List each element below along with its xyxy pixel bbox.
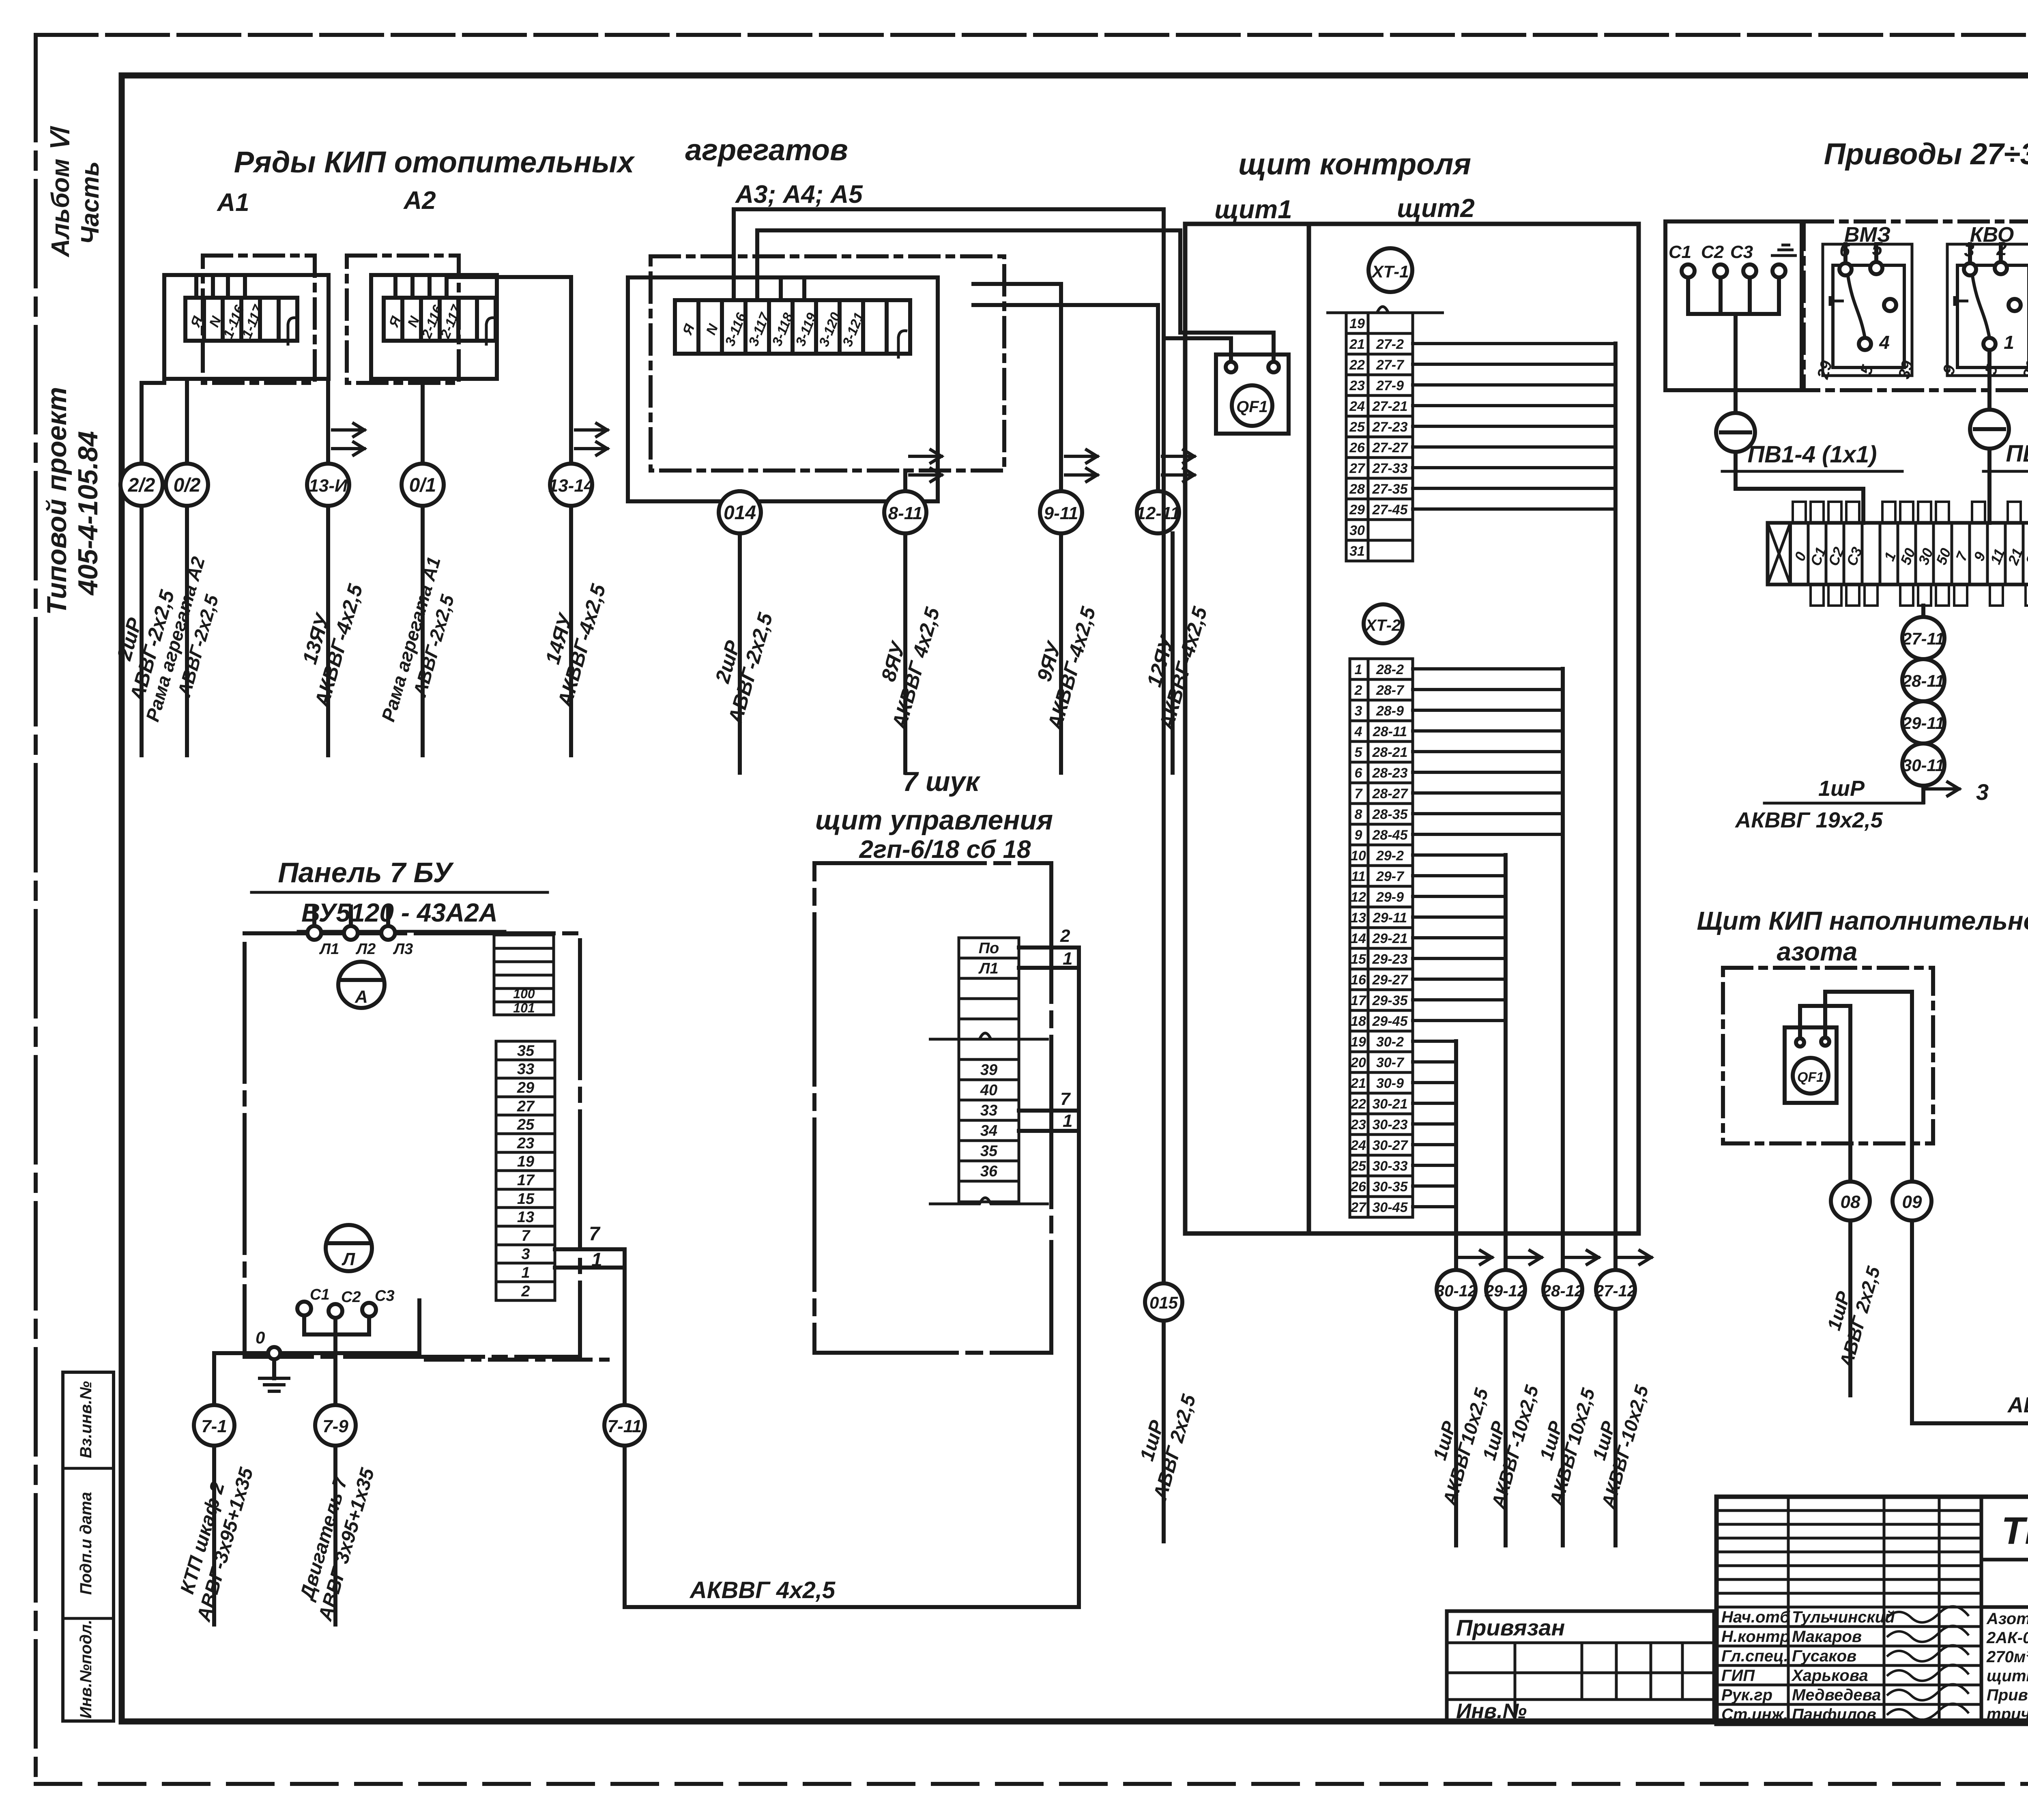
svg-text:27-9: 27-9 [1376, 378, 1404, 393]
cable marker 27-12 [1594, 1270, 1636, 1309]
svg-text:Медведева: Медведева [1792, 1686, 1881, 1704]
svg-text:1: 1 [2004, 332, 2014, 353]
svg-text:28-12: 28-12 [1542, 1282, 1583, 1300]
svg-text:21: 21 [1349, 337, 1365, 352]
wire QF1 to 09 [1825, 992, 1912, 1182]
svg-text:08: 08 [1841, 1192, 1860, 1212]
fuse ПВ1-4 symbol [1716, 413, 1755, 452]
svg-text:13-14: 13-14 [548, 476, 594, 496]
cables below 30-12..27-12 [1454, 1309, 1458, 1545]
svg-text:Привязан: Привязан [1456, 1615, 1565, 1640]
svg-text:Рук.гр: Рук.гр [1721, 1686, 1772, 1704]
cable marker 13-И [307, 464, 349, 506]
cable 14ЯУ АКВВГ-4х2,5 [569, 506, 573, 755]
svg-text:С2: С2 [341, 1289, 361, 1306]
svg-text:А1: А1 [216, 189, 249, 217]
wire: A3 to QF1 right terminal [757, 230, 1274, 367]
svg-text:30-11: 30-11 [1902, 756, 1944, 775]
svg-text:30-35: 30-35 [1373, 1179, 1408, 1195]
svg-text:щит2: щит2 [1397, 193, 1474, 223]
svg-text:3: 3 [1976, 779, 1989, 805]
svg-text:Панфилов: Панфилов [1792, 1706, 1876, 1723]
cable 1шР АВВГ 2х2,5 (015) [1162, 1321, 1166, 1541]
svg-text:13: 13 [1351, 910, 1366, 926]
svg-text:7-1: 7-1 [201, 1416, 227, 1436]
svg-text:Подп.и дата: Подп.и дата [77, 1492, 95, 1595]
svg-text:2: 2 [1354, 683, 1362, 698]
svg-text:28-7: 28-7 [1376, 683, 1405, 698]
svg-text:7: 7 [521, 1227, 531, 1244]
cable marker 015 [1145, 1283, 1182, 1321]
svg-text:014: 014 [724, 502, 756, 524]
cable 1шР АВВГ 2х2,5 (08) [1814, 1220, 1884, 1395]
wire С2 to 7-9 [333, 1334, 337, 1404]
svg-text:21: 21 [1350, 1076, 1366, 1091]
cable marker 8-11 [884, 491, 926, 533]
svg-text:2/2: 2/2 [128, 475, 155, 496]
svg-text:Н.контр: Н.контр [1721, 1628, 1790, 1646]
svg-text:405-4-105.84: 405-4-105.84 [73, 431, 103, 596]
svg-text:27-35: 27-35 [1372, 481, 1408, 497]
svg-text:QF1: QF1 [1797, 1070, 1824, 1085]
bus 29 [1504, 855, 1508, 1270]
svg-text:26: 26 [1349, 440, 1365, 456]
wire QF1 to 08 [1800, 1006, 1850, 1182]
cable marker 29-12 [1484, 1270, 1526, 1309]
wire КВО pin1 to ПВ1-8 [1987, 350, 1991, 410]
svg-text:6: 6 [1839, 239, 1850, 260]
cable Рама агрегата А1 [421, 506, 425, 755]
svg-text:13-И: 13-И [309, 476, 348, 496]
svg-text:15: 15 [517, 1190, 535, 1208]
title block description [1986, 1610, 2028, 1723]
svg-text:29-7: 29-7 [1376, 869, 1405, 884]
svg-text:7-11: 7-11 [608, 1416, 642, 1436]
drives terminal strip [1768, 502, 2028, 606]
wire direction arrows [333, 423, 1194, 481]
svg-text:29: 29 [1349, 502, 1365, 518]
margin note: album [47, 126, 104, 258]
svg-text:Л1: Л1 [319, 941, 339, 958]
svg-text:28-2: 28-2 [1376, 662, 1404, 677]
svg-text:6: 6 [1355, 765, 1363, 781]
svg-text:1: 1 [591, 1249, 602, 1271]
svg-text:18: 18 [1351, 1014, 1366, 1029]
svg-text:Азотно-кислородная станция: Азотно-кислородная станция [1986, 1610, 2028, 1628]
title block doc number [1981, 1497, 2028, 1607]
svg-text:0/1: 0/1 [409, 475, 436, 496]
svg-text:Л1: Л1 [978, 960, 998, 977]
cable marker 7-9 [315, 1405, 356, 1446]
cable marker 08 [1831, 1182, 1870, 1220]
cable marker 28-11 [1902, 659, 1944, 701]
terminals С1 С2 С3 [297, 1286, 395, 1334]
cable marker 7-11 [604, 1405, 645, 1446]
svg-text:30: 30 [1349, 523, 1365, 538]
terminal block A3 [675, 300, 910, 359]
svg-text:Харькова: Харькова [1791, 1667, 1868, 1685]
signal lamps Л1 Л2 Л3 [307, 907, 413, 958]
svg-text:щиты кип;7щук, Панель 7БУ: щиты кип;7щук, Панель 7БУ [1987, 1667, 2028, 1685]
svg-text:4: 4 [1354, 724, 1362, 739]
svg-text:27-7: 27-7 [1376, 357, 1405, 373]
svg-text:22: 22 [1349, 357, 1365, 373]
svg-text:35: 35 [517, 1042, 535, 1059]
svg-text:28-27: 28-27 [1372, 786, 1409, 801]
wires strip to 7-11 riser [555, 1223, 625, 1406]
svg-text:36: 36 [980, 1163, 998, 1180]
terminal table XT-2 [1350, 659, 1413, 1217]
wire: A1 right bus to marker 13-И [326, 379, 330, 464]
svg-text:5: 5 [1872, 238, 1883, 259]
svg-text:Альбом Ⅵ: Альбом Ⅵ [47, 126, 75, 258]
A1 terminal stubs [196, 275, 245, 298]
svg-text:Л: Л [342, 1249, 355, 1269]
svg-text:По: По [979, 940, 999, 957]
label ПВ1-4(1х1) [1722, 441, 1902, 523]
nitrogen KIP box [1723, 968, 1933, 1143]
cable marker 7-1 [194, 1405, 234, 1446]
7шук terminal strip [959, 938, 1019, 1202]
cable marker 014 [719, 491, 761, 533]
wires 33/34 out [1019, 1089, 1079, 1131]
svg-text:19: 19 [1349, 316, 1365, 331]
svg-text:9-11: 9-11 [1044, 503, 1078, 523]
svg-text:0/2: 0/2 [174, 475, 201, 496]
svg-text:29-27: 29-27 [1372, 972, 1409, 988]
svg-text:20: 20 [1350, 1055, 1366, 1070]
svg-text:Нач.отб: Нач.отб [1721, 1608, 1790, 1626]
svg-text:Щит КИП наполнительной: Щит КИП наполнительной [1697, 906, 2028, 935]
terminal strip label XT-1 [1368, 248, 1412, 292]
margin stamp column (Инв №) [63, 1372, 114, 1721]
svg-text:4: 4 [1879, 332, 1890, 353]
svg-text:28-23: 28-23 [1372, 765, 1408, 781]
svg-text:27: 27 [517, 1098, 535, 1115]
svg-text:3: 3 [1964, 239, 1974, 260]
drive terminals box (C1 C2 C3) [1665, 221, 1802, 413]
title block table [1716, 1497, 2028, 1724]
svg-text:28-35: 28-35 [1372, 807, 1408, 822]
svg-text:11: 11 [1351, 869, 1365, 884]
svg-text:Гл.спец.: Гл.спец. [1721, 1647, 1788, 1665]
cable marker 9-11 [1040, 491, 1082, 533]
svg-text:28-21: 28-21 [1372, 745, 1408, 760]
wires XT-2 rows to buses [1413, 669, 1563, 1207]
svg-text:30-27: 30-27 [1373, 1138, 1409, 1153]
svg-text:2АК-0,135 производительностью: 2АК-0,135 производительностью [1986, 1629, 2028, 1647]
wire: A2 to marker 13-14 [447, 277, 571, 464]
svg-text:2гп-6/18 сб 18: 2гп-6/18 сб 18 [859, 836, 1031, 864]
svg-text:ГИП: ГИП [1721, 1667, 1755, 1685]
svg-text:28: 28 [1349, 481, 1365, 497]
margin note: typical project number [41, 387, 103, 615]
svg-text:1: 1 [1355, 662, 1362, 677]
svg-text:14: 14 [1351, 931, 1366, 946]
node 0 / zero bus [214, 1300, 612, 1360]
svg-text:2: 2 [521, 1283, 530, 1300]
wire: strip down to 27-11 chain [1921, 606, 1925, 617]
wire: A2 down to marker 0/1 [421, 379, 425, 464]
label 1шР АКВВГ19х2,5 [1734, 776, 1923, 832]
svg-text:1: 1 [1063, 949, 1072, 969]
wire: A3 to QF1 left terminal / 015 feed [734, 209, 1231, 367]
divider щит1/щит2 [1307, 224, 1311, 1233]
svg-text:Ст.инж.: Ст.инж. [1721, 1706, 1788, 1723]
panel A2 wiring loop [371, 275, 497, 379]
svg-text:27-23: 27-23 [1372, 419, 1408, 435]
wire: A3 right to marker 12-11 [973, 305, 1158, 491]
wire below 30-11 with arrow 3 [1923, 779, 1989, 805]
svg-text:19: 19 [1351, 1034, 1366, 1050]
wire: feed down to marker 015 [1162, 338, 1166, 1284]
wires XT-1 rows to 27 bus [1413, 344, 1616, 509]
panel terminal strip [496, 1041, 555, 1300]
board 7шук box [814, 863, 1051, 1353]
ammeter А [338, 962, 385, 1008]
svg-text:5: 5 [1355, 745, 1363, 760]
terminal block A1 [185, 298, 297, 346]
terminal strip label XT-2 [1364, 604, 1403, 643]
svg-text:30-12: 30-12 [1435, 1282, 1477, 1300]
strip break marks [929, 1033, 1049, 1204]
cable marker 30-11 [1902, 743, 1944, 786]
svg-text:17: 17 [517, 1172, 535, 1189]
cable marker 0/1 [402, 464, 444, 506]
svg-text:АКВВГ 4х2,5: АКВВГ 4х2,5 [689, 1577, 836, 1603]
wire 09 to oxygen box АВВГ 2х2,5 [1912, 1143, 2028, 1423]
svg-text:33: 33 [980, 1102, 997, 1119]
svg-text:щит1: щит1 [1214, 195, 1292, 224]
panel 7БУ box [245, 933, 580, 1357]
wires По/Л1 out [1019, 926, 1079, 969]
cable marker 13-14 [548, 464, 594, 506]
svg-text:27-27: 27-27 [1372, 440, 1409, 456]
control board box [1185, 224, 1639, 1233]
cable marker 2/2 [120, 464, 163, 506]
cable marker 28-12 [1542, 1270, 1583, 1309]
bus 27 [1613, 344, 1618, 1270]
wire: A3 down to marker 8-11 [903, 471, 907, 491]
svg-text:8: 8 [1355, 807, 1362, 822]
svg-text:азота: азота [1777, 937, 1858, 966]
svg-text:7: 7 [1060, 1089, 1071, 1109]
cable marker 0/2 [166, 464, 208, 506]
title: Панель 7БУ [251, 857, 548, 892]
bus 28 [1561, 669, 1565, 1270]
title block signatures text [1721, 1606, 1969, 1723]
svg-text:А3; А4; А5: А3; А4; А5 [735, 180, 863, 208]
svg-text:09: 09 [1902, 1192, 1922, 1212]
svg-text:29: 29 [517, 1079, 534, 1096]
svg-text:22: 22 [1350, 1096, 1366, 1112]
svg-text:29-12: 29-12 [1484, 1282, 1526, 1300]
svg-text:ПВ1-8 (1х1): ПВ1-8 (1х1) [2006, 440, 2028, 467]
svg-text:28-11: 28-11 [1902, 671, 1944, 690]
wire: A3 down to marker 014 [738, 491, 742, 501]
svg-text:25: 25 [1350, 1158, 1366, 1174]
svg-text:29-35: 29-35 [1372, 993, 1408, 1008]
svg-text:17: 17 [1351, 993, 1367, 1008]
svg-text:27: 27 [1350, 1200, 1367, 1215]
stamp: Привязан box [1447, 1611, 1714, 1723]
cable 8ЯУ АКВВГ 4х2,5 [903, 533, 907, 773]
svg-text:Типовой проект: Типовой проект [41, 387, 72, 615]
svg-text:Приводы 27÷30. Схема элек-: Приводы 27÷30. Схема элек- [1987, 1686, 2028, 1704]
svg-text:13: 13 [517, 1209, 534, 1226]
panel A3-A5 wiring loop [628, 277, 938, 501]
svg-text:Л3: Л3 [393, 941, 413, 958]
svg-text:трическая подключении.: трическая подключении. [1987, 1705, 2028, 1723]
svg-text:7: 7 [589, 1223, 601, 1245]
cable Двигатель 7 [292, 1446, 378, 1624]
svg-text:7 шук: 7 шук [902, 766, 981, 797]
cable 2шР АВВГ-2х2,5 [140, 506, 144, 755]
cable 12ЯУ АКВВГ-4х2,5 [1171, 533, 1175, 773]
svg-text:15: 15 [1351, 952, 1366, 967]
svg-text:33: 33 [517, 1061, 534, 1078]
cable marker 09 [1893, 1182, 1931, 1220]
svg-text:27: 27 [1349, 461, 1366, 476]
svg-text:16: 16 [1351, 972, 1366, 988]
svg-text:27-45: 27-45 [1372, 502, 1408, 518]
svg-text:23: 23 [1350, 1117, 1366, 1132]
svg-text:29-9: 29-9 [1376, 890, 1404, 905]
svg-text:015: 015 [1149, 1293, 1178, 1312]
cable 13ЯУ АКВВГ-4х2,5 [326, 506, 330, 755]
svg-text:23: 23 [1349, 378, 1365, 393]
limit switch ВМЗ [1814, 223, 1917, 381]
svg-text:29-11: 29-11 [1373, 910, 1407, 926]
terminal block A2 [384, 298, 496, 346]
svg-text:25: 25 [1349, 419, 1365, 435]
svg-text:ХТ-1: ХТ-1 [1371, 262, 1409, 281]
bus 30 [1454, 1041, 1458, 1270]
svg-text:АВВГ 2х2,5: АВВГ 2х2,5 [2007, 1393, 2028, 1417]
label ПВ1-8(1х1) [1983, 440, 2028, 523]
title: ВУ5120-43А2А [298, 898, 505, 931]
svg-text:3: 3 [521, 1246, 530, 1263]
svg-text:щит управления: щит управления [815, 805, 1053, 836]
svg-text:С1: С1 [1669, 242, 1691, 262]
svg-text:2: 2 [1060, 926, 1070, 946]
breaker QF1 (азот) [1785, 1027, 1837, 1103]
svg-text:агрегатов: агрегатов [685, 133, 848, 167]
svg-text:С2: С2 [1701, 242, 1724, 262]
svg-text:1: 1 [1063, 1111, 1072, 1131]
cable 9ЯУ АКВВГ-4х2,5 [1059, 533, 1063, 773]
svg-text:270м³/ч азота и 70м³/ч кислоро: 270м³/ч азота и 70м³/ч кислорода [1986, 1648, 2028, 1666]
svg-text:Панель 7 БУ: Панель 7 БУ [278, 857, 454, 888]
wire: A1 down to marker 0/2 [185, 379, 189, 464]
svg-text:С3: С3 [1730, 242, 1753, 262]
svg-text:34: 34 [980, 1122, 997, 1139]
svg-text:А2: А2 [403, 187, 436, 215]
svg-text:25: 25 [517, 1116, 535, 1133]
svg-text:28-45: 28-45 [1372, 827, 1408, 843]
svg-text:Инв.№подл.: Инв.№подл. [77, 1620, 95, 1719]
svg-text:30-21: 30-21 [1373, 1096, 1408, 1112]
svg-text:ХТ-2: ХТ-2 [1365, 617, 1401, 634]
wire 0 bus to 7-1 [212, 1353, 216, 1405]
svg-text:7: 7 [1355, 786, 1363, 801]
svg-text:8-11: 8-11 [888, 503, 923, 523]
svg-text:27-12: 27-12 [1594, 1282, 1636, 1300]
wire: A1 down to marker 2/2 [142, 367, 164, 464]
wire 7-11 run АКВВГ 4х2,5 [625, 948, 1079, 1607]
A3 terminal stubs [781, 277, 804, 300]
voltmeter Л [326, 1225, 372, 1271]
svg-text:С3: С3 [375, 1287, 395, 1304]
svg-text:Вз.инв.№: Вз.инв.№ [77, 1381, 95, 1458]
svg-text:Инв.№: Инв.№ [1456, 1700, 1527, 1723]
svg-text:28-9: 28-9 [1376, 703, 1404, 719]
cable КТП шкаф 2 [170, 1446, 258, 1624]
svg-text:30-9: 30-9 [1376, 1076, 1404, 1091]
svg-text:29-2: 29-2 [1376, 848, 1404, 864]
svg-text:27-33: 27-33 [1372, 461, 1408, 476]
svg-text:QF1: QF1 [1236, 398, 1268, 416]
svg-text:28-11: 28-11 [1373, 724, 1407, 739]
svg-text:39: 39 [980, 1061, 997, 1079]
wire: A3 right to marker 9-11 [973, 284, 1061, 491]
svg-text:Ряды КИП отопительных: Ряды КИП отопительных [234, 145, 635, 179]
svg-text:30-2: 30-2 [1376, 1034, 1404, 1050]
svg-text:101: 101 [513, 1001, 535, 1015]
svg-text:23: 23 [517, 1135, 534, 1152]
svg-text:АКВВГ 19х2,5: АКВВГ 19х2,5 [1734, 808, 1883, 832]
cable marker 27-11 [1902, 617, 1944, 659]
svg-text:19: 19 [517, 1153, 534, 1170]
svg-text:29-23: 29-23 [1372, 952, 1408, 967]
svg-text:100: 100 [513, 986, 535, 1001]
svg-text:щит контроля: щит контроля [1238, 147, 1471, 181]
svg-text:9: 9 [1355, 827, 1362, 843]
svg-text:29-11: 29-11 [1902, 713, 1944, 733]
panel A3-A5 enclosure (dash-dot) [651, 256, 1004, 471]
svg-text:24: 24 [1350, 1138, 1366, 1153]
A2 terminal stubs [395, 275, 447, 298]
panel A2 enclosure (dash-dot) [347, 256, 459, 383]
svg-text:Л2: Л2 [355, 941, 376, 958]
svg-text:30-7: 30-7 [1376, 1055, 1405, 1070]
svg-text:ПВ1-4 (1х1): ПВ1-4 (1х1) [1748, 441, 1877, 468]
svg-text:24: 24 [1349, 399, 1365, 414]
bus arrows [1459, 1251, 1651, 1264]
svg-text:ТП405-4-105.84: ТП405-4-105.84 [2001, 1509, 2028, 1552]
svg-text:1шР: 1шР [1818, 776, 1865, 801]
cable Рама агрегата А2 [185, 506, 189, 755]
limit switch КВО [1940, 223, 2028, 381]
cable marker 30-12 [1435, 1270, 1477, 1309]
cable 2шР АВВГ-2х2,5 (A3) [738, 533, 742, 773]
svg-text:С1: С1 [310, 1286, 330, 1303]
svg-text:29-21: 29-21 [1372, 931, 1408, 946]
limit switch group enclosure [1804, 221, 2028, 390]
svg-text:40: 40 [980, 1082, 997, 1099]
svg-text:Часть: Часть [76, 161, 104, 245]
svg-text:30-33: 30-33 [1373, 1158, 1408, 1174]
ground [260, 1359, 289, 1391]
svg-text:29-45: 29-45 [1372, 1014, 1408, 1029]
svg-text:Приводы 27÷30: Приводы 27÷30 [1824, 137, 2028, 171]
svg-text:Гусаков: Гусаков [1792, 1647, 1856, 1665]
svg-text:27-11: 27-11 [1902, 629, 1944, 648]
svg-text:31: 31 [1349, 544, 1365, 559]
svg-text:35: 35 [980, 1143, 998, 1160]
panel A1 enclosure (dash-dot) [203, 256, 315, 383]
svg-text:27-21: 27-21 [1372, 399, 1408, 414]
